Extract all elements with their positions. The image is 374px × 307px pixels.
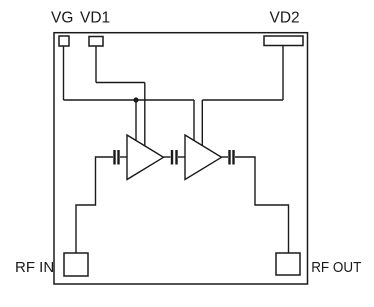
wire C1 to U1 [120, 156, 127, 158]
pad RF IN [64, 253, 88, 276]
wire VD1 horizontal [96, 82, 145, 84]
wire VD2 drop to U2 [201, 100, 203, 146]
wire VG stem [63, 46, 65, 100]
wire U1 to C2 [164, 156, 171, 158]
wire VD2 horizontal [202, 99, 283, 101]
wire U2 to C3 [222, 156, 229, 158]
pad VG [59, 36, 69, 46]
svg-text:RF OUT: RF OUT [311, 260, 361, 277]
node junction dot [133, 97, 138, 102]
wire RF IN riser [76, 157, 113, 253]
wire VG drop to U1 [135, 100, 137, 141]
pad VD2 [264, 36, 303, 46]
svg-text:VD1: VD1 [80, 10, 110, 27]
capacitor C3 [230, 150, 234, 165]
wire VG bus horizontal [64, 99, 195, 101]
pad VD1 [89, 37, 103, 47]
svg-text:RF IN: RF IN [15, 259, 54, 276]
wire VD2 stem [282, 46, 284, 101]
svg-text:VD2: VD2 [270, 10, 300, 27]
outer block boundary [54, 33, 308, 284]
amplifier U1 [127, 135, 164, 180]
wire VG drop to U2 [193, 100, 195, 141]
amplifier U2 [185, 135, 222, 180]
capacitor C2 [172, 150, 177, 165]
wire C2 to U2 [178, 156, 185, 158]
wire VD1 drop to U1 [144, 83, 146, 147]
wire RF OUT run [235, 157, 289, 253]
svg-text:VG: VG [51, 10, 73, 27]
pad RF OUT [276, 253, 300, 275]
wire VD1 stem [95, 46, 97, 83]
capacitor C1 [115, 150, 119, 165]
